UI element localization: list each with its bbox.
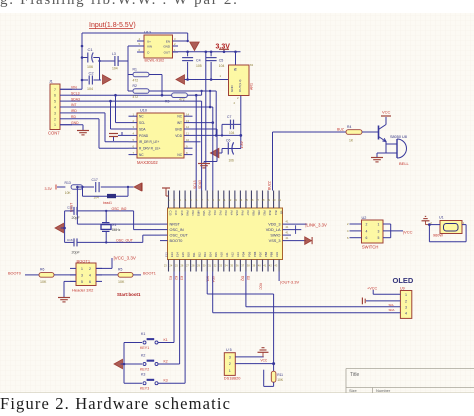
svg-text:960W: 960W [433, 233, 443, 237]
svg-text:NRST: NRST [170, 223, 181, 227]
svg-text:R13: R13 [65, 181, 71, 185]
svg-text:VCC: VCC [382, 110, 391, 115]
svg-text:VCC: VCC [259, 283, 263, 290]
svg-text:PA4: PA4 [230, 211, 234, 216]
svg-text:2: 2 [54, 117, 56, 121]
svg-text:104: 104 [87, 87, 93, 91]
svg-text:A13: A13 [236, 252, 240, 257]
svg-text:K1: K1 [169, 276, 173, 280]
svg-text:3.3V: 3.3V [45, 187, 53, 191]
svg-text:Size: Size [349, 388, 358, 393]
svg-text:U10: U10 [140, 109, 147, 113]
svg-text:DS18B20: DS18B20 [224, 376, 241, 381]
svg-text:C15: C15 [180, 211, 184, 216]
svg-text:Start:boot1: Start:boot1 [117, 292, 141, 297]
svg-text:C5: C5 [219, 59, 224, 63]
svg-text:U2: U2 [362, 216, 367, 220]
svg-text:1: 1 [54, 123, 56, 127]
svg-text:PA3: PA3 [224, 211, 228, 216]
svg-text:10: 10 [186, 138, 190, 142]
svg-text:4: 4 [89, 274, 91, 278]
svg-text:GND: GND [163, 45, 171, 49]
svg-text:B14: B14 [209, 252, 213, 257]
svg-text:OUT: OUT [164, 51, 171, 55]
svg-text:E13: E13 [170, 252, 174, 257]
svg-text:472: 472 [133, 79, 139, 83]
svg-text:PH0: PH0 [185, 211, 189, 217]
svg-text:C1: C1 [88, 47, 94, 52]
svg-text:8MHz: 8MHz [112, 228, 121, 232]
svg-text:R_DRV R_LE+: R_DRV R_LE+ [139, 147, 161, 151]
svg-text:PA5: PA5 [235, 211, 239, 216]
svg-text:3: 3 [405, 305, 407, 309]
svg-text:C-: C- [147, 51, 150, 55]
svg-text:R11: R11 [277, 373, 283, 377]
svg-text:14: 14 [186, 112, 190, 116]
svg-text:1: 1 [405, 293, 407, 297]
svg-text:VDD: VDD [175, 134, 182, 138]
svg-text:U9: U9 [400, 286, 405, 290]
svg-text:K3: K3 [141, 373, 145, 377]
svg-text:VB: VB [279, 211, 283, 215]
svg-text:63: 63 [250, 63, 254, 67]
svg-text:VDD_LA: VDD_LA [266, 228, 281, 232]
svg-text:R5: R5 [118, 268, 122, 272]
svg-text:5: 5 [81, 280, 83, 284]
svg-text:C17: C17 [92, 178, 98, 182]
svg-text:K2: K2 [174, 276, 178, 280]
svg-text:K1: K1 [141, 332, 145, 336]
svg-text:R6: R6 [40, 268, 44, 272]
svg-text:bead1: bead1 [103, 201, 112, 205]
svg-text:PB0: PB0 [252, 211, 256, 217]
svg-text:4: 4 [366, 229, 368, 233]
svg-text:VIN: VIN [147, 45, 152, 49]
svg-text:7: 7 [54, 88, 56, 92]
svg-text:NC: NC [139, 115, 144, 119]
svg-text:C4: C4 [196, 59, 201, 63]
svg-text:|VCC_3.3V: |VCC_3.3V [114, 256, 136, 261]
svg-text:|OUT-3.3V: |OUT-3.3V [280, 280, 299, 285]
svg-text:C2: C2 [89, 71, 95, 76]
svg-text:104: 104 [219, 64, 225, 68]
svg-text:B11: B11 [192, 252, 196, 257]
svg-text:OSC_OUT: OSC_OUT [116, 239, 134, 243]
svg-text:U+: U+ [147, 40, 151, 44]
svg-text:C15: C15 [67, 206, 73, 210]
svg-text:5: 5 [54, 100, 56, 104]
svg-text:SWITCH: SWITCH [362, 244, 379, 249]
svg-text:EN: EN [166, 40, 170, 44]
svg-text:GND: GND [230, 85, 234, 93]
svg-text:INT: INT [177, 121, 182, 125]
svg-text:E14: E14 [175, 252, 179, 257]
svg-text:B13: B13 [203, 252, 207, 257]
svg-text:PA6: PA6 [241, 211, 245, 216]
svg-text:10K: 10K [40, 280, 47, 284]
svg-text:SDA: SDA [389, 308, 395, 312]
svg-text:104: 104 [229, 131, 235, 135]
svg-text:C13: C13 [169, 211, 173, 216]
svg-text:R4: R4 [347, 125, 351, 129]
svg-text:R1: R1 [133, 68, 137, 72]
svg-text:VDD_3: VDD_3 [268, 223, 280, 227]
svg-text:B12: B12 [197, 252, 201, 257]
svg-text:U1: U1 [439, 216, 444, 220]
svg-text:SCL: SCL [389, 303, 395, 307]
svg-text:U1?: U1? [144, 31, 151, 35]
svg-text:2: 2 [229, 362, 231, 366]
svg-text:PB8: PB8 [264, 251, 268, 257]
svg-text:B11: B11 [274, 211, 278, 216]
svg-text:KEY1: KEY1 [140, 346, 149, 350]
svg-text:PD4: PD4 [242, 251, 246, 257]
svg-text:NC: NC [177, 115, 182, 119]
svg-text:VDA: VDA [202, 211, 206, 217]
svg-text:PGND: PGND [139, 134, 149, 138]
svg-text:C16: C16 [67, 238, 73, 242]
svg-text:472: 472 [133, 95, 139, 99]
svg-text:D2: D2 [246, 276, 250, 280]
svg-text:K2: K2 [164, 360, 168, 364]
svg-text:K1: K1 [164, 338, 168, 342]
svg-text:PA2: PA2 [218, 211, 222, 216]
svg-text:J1: J1 [49, 80, 53, 84]
svg-text:B15: B15 [214, 252, 218, 257]
svg-text:MAX30102: MAX30102 [137, 160, 158, 165]
svg-text:L3: L3 [112, 52, 116, 56]
svg-text:104: 104 [112, 67, 118, 71]
svg-text:C7: C7 [227, 115, 231, 119]
svg-text:Header 3X2: Header 3X2 [72, 288, 94, 293]
svg-text:PA7: PA7 [246, 211, 250, 216]
svg-text:Input(1.8-5.5V): Input(1.8-5.5V) [89, 22, 136, 29]
svg-text:VIN: VIN [71, 86, 77, 90]
svg-text:1: 1 [81, 267, 83, 271]
svg-text:BOOT1: BOOT1 [143, 272, 156, 276]
svg-text:10K: 10K [118, 280, 125, 284]
svg-text:PA0: PA0 [207, 211, 211, 216]
svg-text:1.8V: 1.8V [240, 141, 244, 149]
svg-text:CON7: CON7 [48, 131, 60, 136]
svg-text:C14: C14 [174, 211, 178, 216]
svg-text:SDA3: SDA3 [198, 180, 202, 189]
svg-text:|LINK_3.3V: |LINK_3.3V [305, 222, 327, 227]
svg-text:AR1: AR1 [250, 83, 254, 90]
svg-text:R3: R3 [165, 99, 169, 103]
svg-text:BUZZ: BUZZ [268, 181, 272, 190]
svg-text:B10: B10 [268, 211, 272, 216]
svg-text:10K: 10K [65, 191, 72, 195]
svg-text:VSS_3: VSS_3 [269, 239, 281, 243]
svg-text:+VCC: +VCC [367, 286, 377, 290]
svg-text:472: 472 [179, 98, 185, 102]
svg-text:OLED: OLED [393, 276, 414, 285]
svg-text:1: 1 [378, 223, 380, 227]
svg-text:K3: K3 [164, 379, 168, 383]
svg-text:106: 106 [87, 65, 93, 69]
svg-text:K3: K3 [180, 276, 184, 280]
svg-text:4: 4 [54, 106, 56, 110]
svg-text:PB2: PB2 [263, 211, 267, 217]
svg-text:6: 6 [89, 280, 91, 284]
svg-text:PD5: PD5 [247, 251, 251, 257]
svg-text:2: 2 [89, 267, 91, 271]
svg-text:105: 105 [196, 64, 202, 68]
svg-text:A12: A12 [231, 252, 235, 257]
svg-text:PA1: PA1 [213, 211, 217, 216]
svg-text:PD6: PD6 [253, 251, 257, 257]
svg-text:6: 6 [366, 236, 368, 240]
svg-text:NC: NC [139, 153, 144, 157]
svg-text:R2: R2 [133, 84, 137, 88]
svg-text:A10: A10 [220, 252, 224, 257]
svg-text:6: 6 [54, 94, 56, 98]
svg-text:SCL3: SCL3 [193, 180, 197, 189]
svg-text:SCL: SCL [139, 121, 145, 125]
svg-text:BELL: BELL [399, 161, 410, 166]
svg-text:C6: C6 [226, 139, 230, 143]
svg-text:|VCC: |VCC [403, 229, 413, 234]
svg-text:BUZ: BUZ [337, 128, 344, 132]
svg-text:K2: K2 [141, 354, 145, 358]
svg-text:VCC: VCC [261, 358, 268, 362]
svg-text:13: 13 [186, 119, 190, 123]
svg-text:BOOT0: BOOT0 [8, 272, 21, 276]
svg-text:BOOT0: BOOT0 [170, 239, 183, 243]
svg-text:GND: GND [175, 127, 183, 131]
svg-text:OSC_IN2: OSC_IN2 [112, 207, 127, 211]
svg-text:3: 3 [229, 355, 231, 359]
svg-text:106: 106 [229, 158, 235, 162]
svg-text:2: 2 [405, 300, 407, 304]
svg-text:KEY3: KEY3 [140, 387, 149, 391]
svg-text:NRS: NRS [196, 211, 200, 217]
svg-text:20pF: 20pF [72, 216, 81, 220]
svg-text:3: 3 [54, 111, 56, 115]
svg-text:A11: A11 [225, 252, 229, 257]
svg-text:3: 3 [378, 229, 380, 233]
svg-text:E15: E15 [181, 252, 185, 257]
svg-text:2: 2 [366, 223, 368, 227]
svg-text:IR_DR R_LE+: IR_DR R_LE+ [139, 140, 159, 144]
svg-text:PD7: PD7 [258, 251, 262, 257]
svg-text:S8050 U8: S8050 U8 [390, 135, 407, 139]
svg-text:B10: B10 [186, 252, 190, 257]
svg-text:11: 11 [186, 132, 189, 136]
svg-text:C33: C33 [275, 252, 279, 257]
svg-text:1: 1 [229, 369, 231, 373]
svg-text:Number: Number [376, 388, 391, 393]
svg-text:20pF: 20pF [72, 251, 81, 255]
svg-text:DQ: DQ [241, 276, 245, 281]
svg-text:BCWL-9102: BCWL-9102 [145, 59, 165, 63]
svg-text:OSC_OUT: OSC_OUT [170, 234, 189, 238]
svg-text:4: 4 [405, 311, 407, 315]
svg-text:1K: 1K [349, 139, 354, 143]
svg-text:12: 12 [186, 125, 190, 129]
svg-text:U 5: U 5 [226, 348, 232, 352]
svg-text:5: 5 [378, 236, 380, 240]
svg-text:OUT(3.3): OUT(3.3) [238, 79, 242, 92]
svg-text:Title: Title [350, 372, 359, 378]
svg-text:NC: NC [177, 153, 182, 157]
svg-text:SDA: SDA [139, 127, 146, 131]
svg-text:X1: X1 [112, 223, 116, 227]
svg-text:10K: 10K [277, 378, 284, 382]
svg-text:KEY2: KEY2 [140, 367, 149, 371]
svg-text:E12: E12 [164, 252, 168, 257]
svg-text:PB1: PB1 [257, 211, 261, 217]
svg-text:OSC_IN: OSC_IN [170, 228, 184, 232]
svg-text:PB9: PB9 [269, 251, 273, 257]
svg-text:PH1: PH1 [191, 211, 195, 217]
svg-text:SWIO: SWIO [270, 234, 280, 238]
svg-text:3: 3 [81, 274, 83, 278]
